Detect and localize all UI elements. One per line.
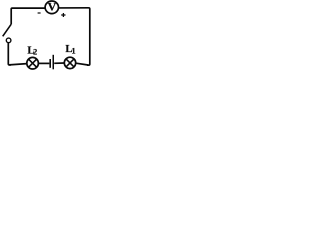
wire top-right segment bbox=[58, 7, 89, 9]
label L2 bbox=[27, 44, 37, 56]
wire right side bbox=[87, 8, 90, 65]
svg-text:V: V bbox=[48, 0, 57, 13]
wire top-left segment bbox=[11, 8, 45, 24]
svg-text:2: 2 bbox=[33, 48, 37, 57]
switch S contact circle bbox=[6, 38, 11, 43]
battery cell: negative short plate bbox=[49, 59, 51, 68]
lamp L1 bbox=[64, 57, 75, 68]
polarity label plus bbox=[61, 13, 65, 17]
battery cell: positive long plate bbox=[53, 55, 55, 70]
svg-text:1: 1 bbox=[72, 47, 76, 56]
voltmeter V bbox=[45, 0, 58, 14]
wire left-lower vertical bbox=[8, 43, 11, 65]
lamp L2 bbox=[27, 57, 39, 69]
wire battery-to-L1 bbox=[54, 62, 64, 64]
switch S blade bbox=[3, 24, 12, 36]
label L1 bbox=[65, 43, 75, 55]
wire bottom-right segment bbox=[76, 63, 88, 65]
wire bottom-left segment bbox=[9, 64, 27, 65]
polarity label minus bbox=[38, 12, 41, 13]
wire L2-to-battery bbox=[38, 62, 49, 64]
